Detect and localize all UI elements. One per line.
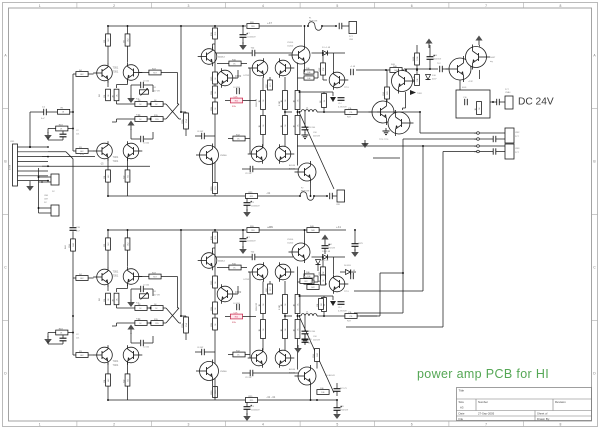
- wire channel A output segment: [377, 111, 420, 113]
- junction R48 rail: [107, 399, 109, 401]
- wire fuse right: [314, 195, 327, 197]
- wire R64 R66 mid: [284, 314, 286, 320]
- capacitor C10: [302, 340, 309, 343]
- wire positive rail right channel 1: [260, 25, 303, 27]
- svg-text:4L2: 4L2: [108, 379, 110, 382]
- wire diode left: [312, 256, 323, 258]
- wire Q27 emitter chain: [262, 282, 264, 295]
- junction input node: [72, 315, 74, 317]
- svg-text:0.47/250V: 0.47/250V: [338, 311, 347, 313]
- label C24: [233, 303, 241, 305]
- svg-text:220/12V: 220/12V: [313, 340, 321, 342]
- label C27 value: [247, 241, 256, 243]
- capacitor C12: [251, 48, 256, 57]
- transistor Q12 output: [295, 161, 317, 183]
- wire R45 to rail: [107, 230, 109, 238]
- wire D7 chain: [317, 265, 319, 271]
- transistor Q32 output: [369, 99, 395, 125]
- wire R76 right: [245, 354, 250, 356]
- wire R67 R68 mid: [297, 314, 299, 320]
- capacitor CB coupling: [330, 193, 333, 199]
- wire C27 bottom: [242, 241, 244, 248]
- resistor R34: [229, 59, 241, 66]
- ground C15: [302, 132, 309, 139]
- transistor Q11 driver: [275, 144, 294, 164]
- svg-text:C4 104: C4 104: [143, 347, 149, 349]
- junction R31 out: [323, 111, 325, 113]
- resistor R43: [76, 351, 88, 358]
- svg-text:6: 6: [411, 4, 413, 8]
- wire R7 to rail: [127, 26, 129, 34]
- svg-text:C5200: C5200: [287, 243, 294, 245]
- wire R44 to base: [88, 277, 93, 279]
- junction R71 feed: [299, 295, 301, 297]
- resistor R67 emitter: [293, 295, 300, 314]
- svg-text:R17: R17: [153, 72, 156, 74]
- svg-text:CN3: CN3: [515, 148, 520, 150]
- wire channel B output to riser: [360, 315, 380, 317]
- label CN1 type: [10, 164, 12, 170]
- resistor R24 emitter: [281, 91, 288, 110]
- wire CN1 pin5 extended: [42, 165, 150, 167]
- junction R7 rail: [127, 25, 129, 27]
- wire C6 left: [195, 135, 202, 137]
- wire Q7 base lead: [248, 67, 250, 69]
- label R58 red value: [232, 322, 237, 324]
- wire R64 top: [284, 281, 286, 294]
- wire R4 left: [73, 73, 76, 75]
- wire C33 right: [253, 372, 298, 374]
- wire R76 left: [228, 354, 233, 356]
- wire CN3 neg long: [443, 151, 477, 153]
- svg-text:R1A: R1A: [181, 323, 184, 328]
- wire R11 R10 join: [147, 103, 151, 105]
- wire output right: [357, 111, 377, 113]
- wire fuse right top: [322, 25, 336, 27]
- wire C3 elbow: [131, 84, 140, 86]
- ground Q32: [383, 128, 390, 135]
- resistor R14: [211, 86, 218, 98]
- wire C7 top: [242, 26, 244, 35]
- wire R77 left: [303, 270, 306, 276]
- wire C22 stub: [62, 335, 64, 338]
- capacitor C32: [251, 252, 256, 261]
- wire vas chain3: [214, 98, 216, 102]
- label R22 value: [256, 99, 258, 107]
- wire output node: [285, 111, 292, 113]
- wire C5 drop: [130, 129, 132, 139]
- wire crossing join B: [179, 322, 181, 324]
- resistor R71: [320, 298, 327, 312]
- title block frame: [457, 388, 592, 421]
- junction riser pin: [29, 146, 31, 148]
- resistor R75: [211, 387, 218, 398]
- net label +47 channel 2: [267, 225, 272, 229]
- junction R11 R10: [150, 103, 152, 105]
- svg-text:8: 8: [560, 4, 562, 8]
- resistor R44: [76, 274, 88, 281]
- wire CN1 pin8 ground leg: [41, 181, 43, 183]
- resistor R74: [229, 263, 241, 270]
- svg-text:7: 7: [485, 4, 487, 8]
- ground C36: [351, 249, 359, 257]
- capacitor C41: [493, 148, 496, 154]
- resistor R42: [56, 328, 68, 335]
- svg-text:R1k: R1k: [235, 100, 238, 102]
- svg-text:1000/50V: 1000/50V: [251, 206, 260, 208]
- wire feedback vertical B: [180, 26, 182, 112]
- capacitor C16: [465, 99, 468, 105]
- wire C10 bottom: [304, 342, 306, 345]
- label C34 value: [338, 311, 347, 313]
- wire driver base rail: [249, 272, 251, 358]
- trimmer potentiometer W2: [140, 292, 149, 300]
- wire R31 feed: [300, 92, 325, 93]
- label CB3b: [349, 39, 354, 41]
- label R64 value: [279, 304, 281, 310]
- capacitor C7 electrolytic: [240, 33, 249, 38]
- wire C33 top: [336, 400, 338, 408]
- wire R55 to crossing: [163, 322, 166, 324]
- label R11: [136, 99, 140, 101]
- svg-text:130K: 130K: [417, 56, 419, 61]
- wire R37 right: [314, 72, 318, 78]
- svg-text:0.33R: 0.33R: [279, 304, 281, 310]
- wire cap tap stub: [332, 296, 334, 300]
- svg-text:220/12V: 220/12V: [313, 136, 321, 138]
- resistor R4F: [300, 277, 312, 284]
- svg-text:-41: -41: [266, 191, 271, 195]
- wire R37 left: [303, 66, 306, 72]
- wire C26 left: [195, 351, 202, 353]
- label Q31 type: [289, 368, 296, 371]
- capacitor C5 lower: [141, 136, 144, 142]
- svg-text:7751 7751: 7751 7751: [379, 139, 389, 141]
- resistor R21: [211, 28, 218, 39]
- label Q11 type: [289, 164, 296, 167]
- transistor Q35 regulator: [466, 45, 491, 70]
- wire regulator down: [459, 80, 461, 90]
- wire R16 top: [185, 112, 187, 113]
- svg-text:2: 2: [113, 4, 115, 8]
- junction output mid left: [284, 111, 286, 113]
- label D7: [321, 260, 329, 262]
- wire R38 right: [314, 77, 318, 79]
- transistor Q33: [196, 360, 227, 383]
- wire R26 down: [284, 135, 286, 146]
- wire C12 left: [216, 52, 252, 54]
- svg-text:7: 7: [485, 422, 487, 426]
- wire C32 right: [255, 256, 293, 258]
- transistor Q28 driver: [275, 262, 294, 282]
- fuse F1 label: [309, 18, 312, 20]
- junction C36 rail: [354, 229, 356, 231]
- wire R53 feed: [112, 323, 120, 326]
- junction C34 node: [429, 68, 431, 70]
- resistor R19: [211, 102, 218, 114]
- resistor R1: [58, 108, 70, 115]
- label C29 value: [251, 410, 260, 412]
- ground input network: [44, 336, 52, 344]
- wire C41 to CN3: [496, 151, 505, 153]
- wire rail b ext: [302, 229, 307, 231]
- wire R3 to base: [88, 150, 93, 152]
- label C34 area: [313, 336, 316, 338]
- svg-text:C13 NP: C13 NP: [245, 377, 252, 379]
- label C25: [143, 347, 149, 349]
- svg-text:C4 1/5P: C4 1/5P: [233, 303, 241, 305]
- resistor R29 on rail: [245, 192, 257, 199]
- svg-text:R41: R41: [387, 91, 389, 94]
- junction rail b C37: [336, 399, 338, 401]
- label C34 area value: [313, 136, 321, 138]
- label CNB4: [505, 92, 511, 94]
- wire R4 to base: [88, 73, 93, 75]
- wire vas chain2: [214, 288, 216, 302]
- wire D6 left: [340, 271, 346, 273]
- pad CN2 positive: [474, 132, 479, 135]
- svg-text:R44: R44: [73, 243, 75, 246]
- svg-text:C5200: C5200: [287, 46, 294, 48]
- ground C27: [239, 246, 247, 254]
- wire output diagonal to connector: [300, 317, 335, 393]
- wire R10 to rail: [127, 182, 129, 196]
- resistor R79: [266, 284, 273, 294]
- wire R66 down: [284, 339, 286, 350]
- wire supply rail top: [356, 69, 404, 71]
- svg-text:16PV: 16PV: [358, 243, 364, 245]
- transistor Q24: [123, 345, 142, 365]
- svg-text:0.33R: 0.33R: [279, 100, 281, 106]
- svg-text:10E: 10E: [413, 78, 415, 82]
- wire feedback vertical A: [177, 277, 179, 309]
- wire rail b ext2: [319, 229, 346, 231]
- wire Q21 emitter: [107, 285, 109, 291]
- wire R43 left: [73, 354, 76, 356]
- capacitor CB coupling top: [339, 23, 342, 29]
- svg-text:Size: Size: [459, 400, 465, 404]
- svg-text:D6 61B: D6 61B: [344, 265, 351, 267]
- wire R36 right: [245, 138, 250, 140]
- label C37: [340, 388, 347, 390]
- resistor R48: [104, 374, 111, 386]
- label C1 value: [41, 118, 45, 120]
- wire cap tap stub: [332, 92, 334, 96]
- wire R47 to rail: [127, 230, 129, 238]
- wire R39 top: [269, 77, 271, 80]
- svg-text:230/0.7W: 230/0.7W: [256, 99, 258, 107]
- label D10 value: [432, 79, 437, 81]
- wire R24 R26 mid: [284, 110, 286, 116]
- wire R58 right: [243, 316, 256, 318]
- wire R44 left: [73, 277, 76, 279]
- wire R74 right: [241, 267, 247, 269]
- label R53: [136, 319, 141, 321]
- wire C33 low: [336, 410, 338, 413]
- label R40: [391, 64, 396, 66]
- wire C32 left: [216, 256, 252, 258]
- capacitor C30: [440, 66, 443, 72]
- svg-text:R20: R20: [215, 186, 217, 189]
- wire driver base rail: [249, 68, 251, 154]
- net label -41 channel 1: [266, 191, 271, 195]
- svg-text:C5200: C5200: [220, 155, 227, 157]
- resistor R8: [104, 170, 111, 182]
- svg-text:D669: D669: [235, 290, 242, 294]
- wire R18 left: [225, 100, 230, 102]
- svg-text:0.47/250V: 0.47/250V: [338, 107, 347, 109]
- label Q7 type: [243, 75, 250, 77]
- wire Q9 collector rail: [304, 26, 306, 44]
- label C30: [437, 63, 441, 65]
- svg-text:D8: D8: [321, 303, 323, 305]
- svg-text:CN1: CN1: [10, 141, 15, 143]
- svg-text:C1L: C1L: [349, 316, 352, 318]
- capacitor C31: [351, 273, 354, 279]
- wire diode right: [328, 256, 346, 258]
- svg-text:Date: Date: [459, 412, 465, 416]
- junction DC node: [492, 101, 494, 103]
- resistor R13: [135, 115, 147, 122]
- label Q4 type: [113, 159, 119, 163]
- label R32 below: [347, 117, 352, 119]
- wire R18 right: [243, 100, 256, 102]
- label C10: [308, 339, 313, 341]
- wire crossing join B: [179, 118, 181, 120]
- capacitor C29 electrolytic: [244, 405, 253, 410]
- trimmer W1 label: [153, 87, 157, 89]
- wire R3 left: [73, 150, 76, 152]
- wire vas chain5: [214, 398, 216, 401]
- wire C36 bottom: [354, 246, 356, 251]
- fuse F1 label2: [309, 20, 318, 23]
- junction inductor left: [299, 111, 301, 113]
- label C35: [308, 331, 315, 333]
- wire CN1 pin1 to input: [41, 146, 43, 148]
- capacitor C6: [202, 133, 205, 139]
- wire vas rail stub: [214, 26, 216, 28]
- wire C13 right: [253, 168, 298, 170]
- wire Q32 collector rail: [310, 387, 312, 400]
- svg-text:+41: +41: [336, 225, 341, 229]
- svg-text:4: 4: [262, 4, 264, 8]
- label C15: [308, 127, 315, 129]
- resistor R30: [319, 63, 326, 75]
- wire C29 bottom: [246, 409, 248, 415]
- wire R30 to Q14 base: [323, 75, 327, 80]
- junction channel A output: [419, 111, 421, 113]
- wire CB6 link: [39, 207, 52, 209]
- connector D2: [51, 174, 59, 185]
- wire C37 low: [336, 391, 338, 396]
- transistor Q32 output: [295, 365, 317, 387]
- capacitor C9 electrolytic: [244, 201, 253, 206]
- resistor R61: [211, 232, 218, 243]
- label D2: [52, 191, 55, 193]
- wire D2 link: [39, 176, 52, 178]
- transistor Q3: [93, 141, 112, 161]
- text DC 24V: [518, 97, 554, 108]
- fuse F2: [299, 192, 315, 200]
- ground C29: [243, 413, 251, 421]
- junction R5 rail top: [107, 25, 109, 27]
- wire R50 to crossing: [163, 307, 166, 309]
- resistor R56: [181, 317, 189, 333]
- transistor Q30 driver: [248, 348, 267, 368]
- svg-text:R20: R20: [251, 26, 254, 28]
- svg-text:C1L: C1L: [349, 112, 352, 114]
- resistor R54: [211, 302, 218, 314]
- resistor R76: [233, 350, 245, 357]
- wire R48 to rail: [107, 386, 109, 400]
- label R46: [99, 297, 101, 301]
- svg-text:R29: R29: [250, 196, 253, 198]
- diode D7: [316, 260, 321, 265]
- wire R13 left: [120, 118, 135, 120]
- svg-text:C1K: C1K: [234, 96, 239, 98]
- svg-text:14V 5W: 14V 5W: [153, 295, 160, 297]
- power tap arrow channel 2: [330, 301, 336, 306]
- label C7 value: [247, 37, 256, 39]
- wire C25 elbow2: [144, 336, 153, 343]
- ground compensation: [127, 299, 135, 307]
- wire R50 mid: [416, 65, 418, 74]
- svg-text:6E2: 6E2: [80, 355, 83, 357]
- transistor Q13: [196, 144, 227, 167]
- wire R74 left: [217, 267, 229, 269]
- wire CN1 ground stub: [29, 181, 31, 183]
- label Q11 type2: [289, 168, 296, 171]
- wire C35 top: [304, 316, 306, 331]
- label CB6: [44, 195, 49, 197]
- wire Q22 base right: [139, 276, 150, 278]
- label Q31 type2: [289, 372, 296, 375]
- power arrow compensation: [127, 121, 134, 131]
- wire Q2 base right: [139, 72, 150, 74]
- wire diode left: [312, 52, 323, 54]
- resistor R15: [151, 115, 163, 122]
- svg-text:W? 17V: W? 17V: [340, 388, 347, 390]
- wire Q26 base: [235, 286, 239, 294]
- wire C33 left: [242, 372, 250, 374]
- svg-text:10E: 10E: [306, 272, 310, 274]
- resistor R23 emitter: [259, 116, 266, 135]
- svg-text:Title: Title: [459, 389, 465, 393]
- svg-text:3: 3: [188, 422, 190, 426]
- capacitor C27 electrolytic: [240, 237, 249, 242]
- wire supply node: [404, 68, 438, 70]
- ground C33: [333, 411, 341, 419]
- resistor R51: [135, 304, 147, 311]
- label C11 value: [350, 66, 356, 68]
- net label -41 channel 2: [266, 395, 271, 399]
- ground C9: [243, 209, 251, 217]
- svg-text:power amp PCB for HI: power amp PCB for HI: [417, 367, 549, 381]
- svg-text:C4793: C4793: [243, 279, 250, 281]
- capacitor C34 zobel: [338, 302, 345, 305]
- resistor R46: [104, 293, 111, 305]
- wire R47 to Q22: [127, 250, 129, 266]
- fuse F2 label: [301, 188, 304, 190]
- label C16: [463, 97, 468, 99]
- wire C34 top: [429, 45, 431, 57]
- svg-text:C4 1/5P: C4 1/5P: [233, 87, 241, 89]
- label D6: [344, 265, 351, 267]
- wire D2 CB6 bus: [38, 168, 40, 213]
- svg-text:1000/50V: 1000/50V: [247, 241, 256, 243]
- capacitor C35: [70, 228, 77, 231]
- svg-text:6: 6: [411, 422, 413, 426]
